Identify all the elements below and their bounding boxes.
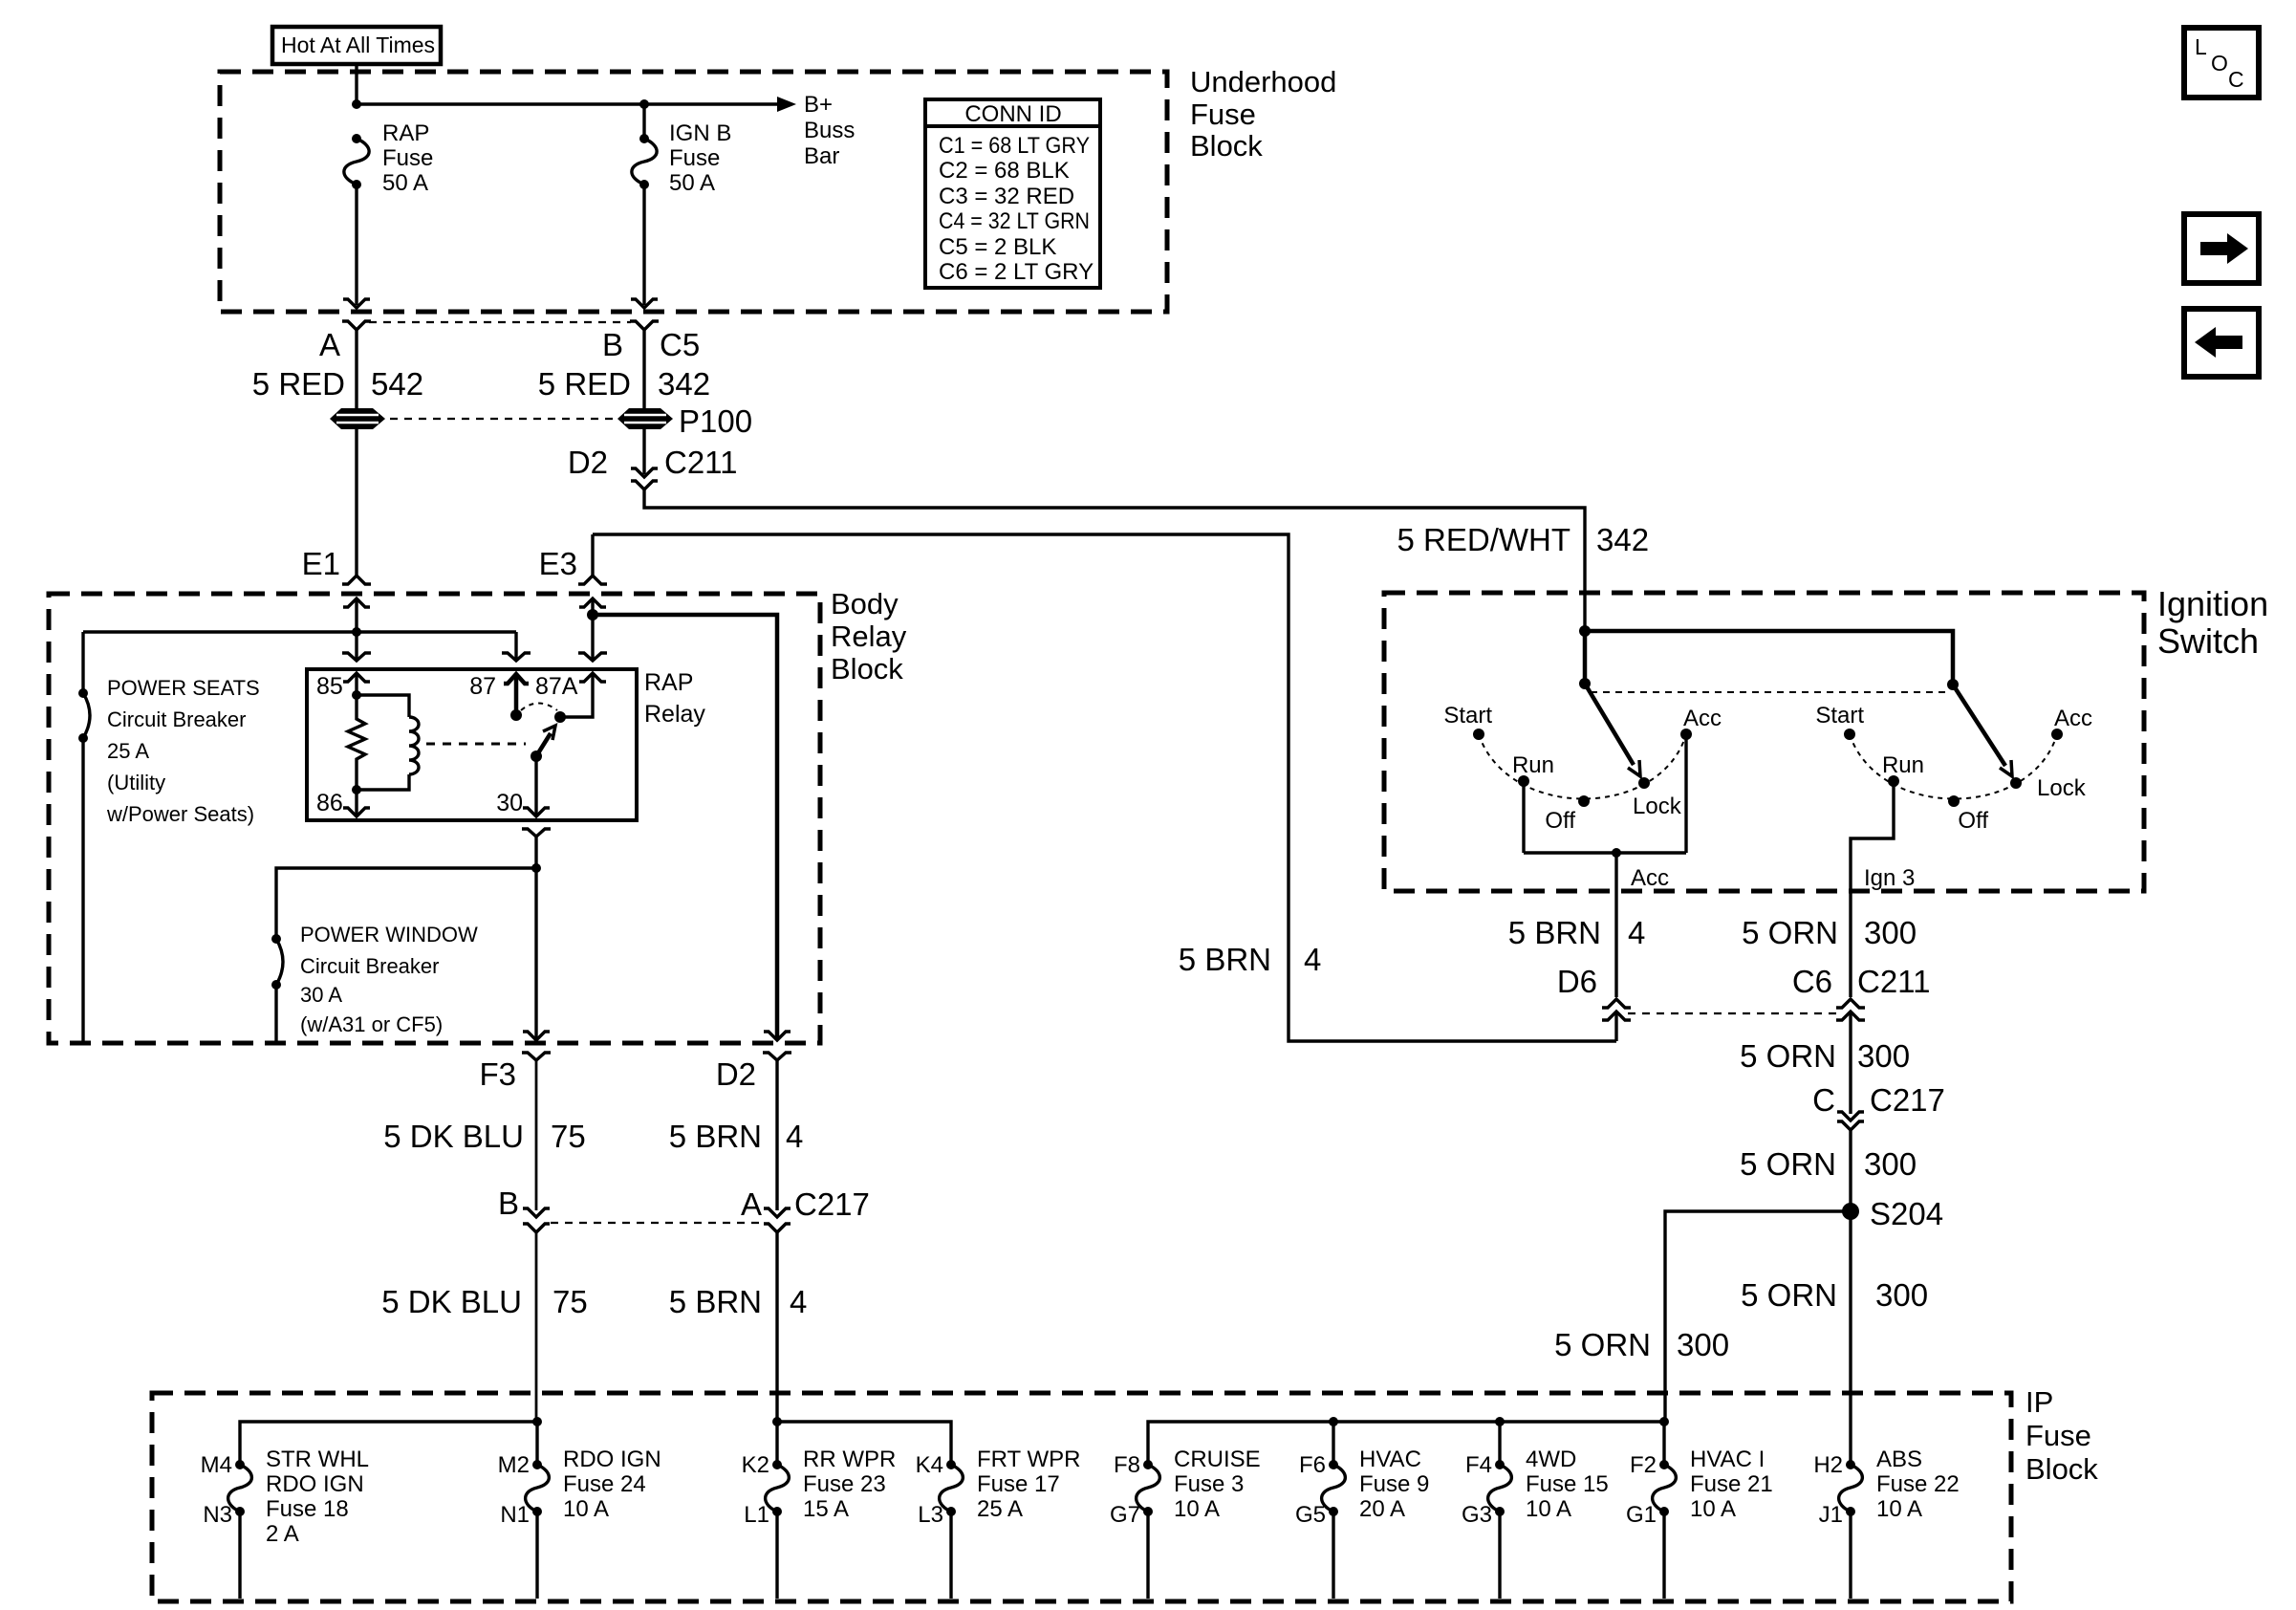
svg-text:5 BRN: 5 BRN (669, 1284, 762, 1319)
label 5 BRN 4 (acc) (1508, 915, 1646, 950)
svg-text:Fuse 17: Fuse 17 (977, 1471, 1060, 1497)
wire F2 feed (1662, 1422, 1665, 1465)
connector C217 C (arrow and fork) (1837, 1112, 1864, 1130)
wire fuse 23 out (775, 1512, 778, 1599)
wire pin 30 to F3 (534, 837, 537, 1039)
svg-text:C5: C5 (660, 327, 700, 362)
svg-text:C217: C217 (794, 1186, 870, 1222)
svg-text:POWER WINDOW: POWER WINDOW (300, 923, 478, 946)
svg-text:F8: F8 (1114, 1452, 1140, 1478)
wire A to grommet (355, 330, 357, 409)
svg-text:FRT WPR: FRT WPR (977, 1447, 1080, 1472)
wire power window breaker out (274, 985, 277, 1041)
svg-text:Lock: Lock (2037, 775, 2087, 801)
svg-text:50 A: 50 A (669, 170, 715, 196)
svg-text:S204: S204 (1870, 1196, 1943, 1231)
wire acc output bar (1524, 851, 1686, 854)
svg-text:CONN ID: CONN ID (964, 101, 1061, 127)
label box Hot At All Times (272, 27, 441, 64)
svg-text:10 A: 10 A (1526, 1496, 1571, 1522)
breaker POWER WINDOW 30 A (271, 934, 283, 990)
label 5 ORN 300 (below c211) (1740, 1038, 1910, 1074)
svg-text:F4: F4 (1465, 1452, 1492, 1478)
svg-text:50 A: 50 A (382, 170, 428, 196)
wire fuse 15 out (1498, 1512, 1501, 1599)
svg-text:5 RED/WHT: 5 RED/WHT (1397, 522, 1571, 557)
svg-text:C211: C211 (1857, 964, 1930, 999)
wire B grommet to C211 (642, 429, 645, 474)
connector fork at relay pin 87 (502, 653, 531, 661)
svg-text:Fuse 22: Fuse 22 (1876, 1471, 1960, 1497)
wire ip bus left (240, 1422, 537, 1465)
fuse CRUISE Fuse 3 10 A (1110, 1447, 1261, 1528)
pin 30 arrow (523, 756, 550, 816)
node bus F4 (1495, 1417, 1505, 1426)
node Acc right (2051, 729, 2063, 740)
connector C6 (double fork) (1836, 999, 1865, 1020)
svg-text:4: 4 (1628, 915, 1645, 950)
svg-text:Hot At All Times: Hot At All Times (281, 33, 435, 57)
label POWER WINDOW Circuit Breaker (300, 923, 478, 1036)
arrow F3 exit (523, 1032, 550, 1040)
connector fork below pin 30 (522, 829, 551, 837)
node bus M2 (532, 1417, 542, 1426)
node relay common (531, 751, 542, 762)
wire fuse 17 out (949, 1512, 952, 1599)
svg-text:F2: F2 (1630, 1452, 1657, 1478)
wire F4 feed (1498, 1422, 1501, 1465)
svg-text:G7: G7 (1110, 1502, 1140, 1528)
svg-text:87: 87 (469, 673, 496, 700)
wire E3 drop (591, 534, 594, 577)
node Lock right (2010, 777, 2022, 789)
pin 85 arrow (343, 673, 370, 695)
node left pivot (1579, 678, 1591, 689)
arrow E3 entry (579, 598, 606, 615)
svg-text:K4: K4 (916, 1452, 943, 1478)
svg-text:Ignition: Ignition (2157, 584, 2268, 623)
svg-text:CRUISE: CRUISE (1174, 1447, 1261, 1472)
fuse 4WD Fuse 15 10 A (1462, 1447, 1609, 1528)
label RAP Relay (644, 669, 705, 728)
pin 87A arrow (579, 673, 606, 682)
svg-text:POWER SEATS: POWER SEATS (107, 676, 260, 700)
svg-text:75: 75 (551, 1119, 586, 1154)
fuse RR WPR Fuse 23 15 A (742, 1447, 897, 1528)
wire F3 to C217 (535, 1060, 538, 1210)
connector F3 (fork) (522, 1053, 551, 1060)
label 5 BRN 4 (rap relay feed) (1179, 942, 1322, 977)
svg-text:C2 = 68 BLK: C2 = 68 BLK (939, 158, 1070, 184)
wire ignition crossbar (1585, 631, 1953, 685)
svg-text:Start: Start (1443, 703, 1492, 729)
svg-text:HVAC I: HVAC I (1690, 1447, 1765, 1472)
label 5 RED 542 (252, 366, 423, 402)
svg-text:300: 300 (1875, 1277, 1928, 1313)
svg-text:RR WPR: RR WPR (803, 1447, 896, 1472)
wire Acc left down (1684, 734, 1687, 853)
svg-text:Fuse: Fuse (1190, 98, 1256, 131)
wire C217 to S204 (1849, 1130, 1852, 1211)
label 5 DK BLU 75 (383, 1119, 585, 1154)
arrow D2 exit (764, 1032, 791, 1040)
svg-text:Fuse 15: Fuse 15 (1526, 1471, 1609, 1497)
wire IGN B fuse output (642, 185, 645, 305)
svg-text:342: 342 (658, 366, 710, 402)
node power window junction (531, 863, 541, 873)
svg-text:M2: M2 (498, 1452, 530, 1478)
svg-text:Fuse 23: Fuse 23 (803, 1471, 886, 1497)
svg-text:5 RED: 5 RED (252, 366, 345, 402)
wire C211 to ignition switch (644, 490, 1585, 631)
node Start left (1473, 729, 1484, 740)
svg-text:C3 = 32 RED: C3 = 32 RED (939, 184, 1074, 209)
wire left pole feed (1583, 631, 1588, 684)
wire D2 to C217 (775, 1060, 778, 1210)
fuse FRT WPR Fuse 17 25 A (916, 1447, 1081, 1528)
svg-text:A: A (741, 1186, 762, 1222)
label 5 ORN 300 (to abs) (1741, 1277, 1928, 1313)
svg-text:Relay: Relay (831, 620, 907, 653)
svg-text:A: A (319, 327, 340, 362)
node relay coil top (352, 690, 361, 700)
svg-text:ABS: ABS (1876, 1447, 1922, 1472)
svg-text:IGN B: IGN B (669, 120, 731, 146)
svg-text:5 ORN: 5 ORN (1741, 1277, 1837, 1313)
wire K2 feed (775, 1422, 778, 1465)
wire power window bus (276, 868, 536, 939)
svg-text:D2: D2 (568, 445, 608, 480)
svg-text:Block: Block (2025, 1452, 2098, 1486)
svg-text:P100: P100 (679, 403, 752, 439)
svg-text:300: 300 (1857, 1038, 1910, 1074)
svg-text:75: 75 (552, 1284, 588, 1319)
svg-text:5 ORN: 5 ORN (1740, 1146, 1836, 1182)
svg-text:C6: C6 (1792, 964, 1832, 999)
svg-text:D6: D6 (1557, 964, 1597, 999)
svg-text:5 ORN: 5 ORN (1742, 915, 1838, 950)
svg-text:5 ORN: 5 ORN (1554, 1327, 1651, 1362)
svg-text:J1: J1 (1819, 1502, 1843, 1528)
svg-text:5 DK BLU: 5 DK BLU (383, 1119, 524, 1154)
svg-text:RAP: RAP (382, 120, 429, 146)
svg-text:Run: Run (1512, 752, 1554, 778)
wire fuse 24 out (535, 1512, 538, 1599)
svg-text:5 BRN: 5 BRN (1179, 942, 1271, 977)
dashed connector link A-B (369, 321, 631, 323)
connector A (fork) (342, 321, 371, 330)
label IP Fuse Block (2025, 1385, 2098, 1486)
node Off right (1948, 795, 1960, 807)
svg-text:Body: Body (831, 587, 899, 620)
node ignition feed junction (1579, 625, 1591, 637)
fuse RAP 50 A (344, 120, 433, 196)
svg-text:85: 85 (316, 673, 343, 700)
svg-text:25 A: 25 A (977, 1496, 1023, 1522)
table CONN ID (925, 99, 1100, 288)
svg-text:O: O (2211, 51, 2228, 76)
wire M2 feed (535, 1422, 538, 1465)
svg-text:Off: Off (1545, 808, 1575, 834)
wire A grommet to E1 (355, 429, 357, 577)
node contact 87A (554, 711, 566, 723)
dashed gang link (1591, 691, 1947, 693)
svg-text:Fuse 3: Fuse 3 (1174, 1471, 1244, 1497)
node splice S204 (1842, 1203, 1859, 1220)
fuse RDO IGN Fuse 24 10 A (498, 1447, 661, 1528)
svg-text:M4: M4 (201, 1452, 232, 1478)
label 5 ORN 300 (above s204) (1740, 1146, 1917, 1182)
svg-text:300: 300 (1677, 1327, 1729, 1362)
svg-text:5 BRN: 5 BRN (669, 1119, 762, 1154)
svg-text:87A: 87A (535, 673, 578, 700)
node bus F6 (1329, 1417, 1338, 1426)
dashed coil actuator link (426, 743, 526, 746)
wire fuse 22 out (1849, 1512, 1852, 1599)
node Start right (1844, 729, 1855, 740)
icon right arrow box (2184, 214, 2259, 283)
svg-text:Underhood: Underhood (1190, 65, 1336, 98)
svg-text:E1: E1 (302, 546, 340, 581)
svg-text:F3: F3 (479, 1056, 516, 1092)
svg-text:25 A: 25 A (107, 739, 149, 763)
dashed throw arc 87 to 87A (521, 704, 557, 711)
svg-text:N3: N3 (203, 1502, 232, 1528)
wire RAP fuse output (355, 185, 357, 305)
Ignition Switch dashed box (1384, 593, 2144, 891)
svg-text:C6 = 2 LT GRY: C6 = 2 LT GRY (939, 259, 1094, 285)
svg-text:IP: IP (2025, 1385, 2053, 1419)
svg-text:Fuse: Fuse (2025, 1419, 2091, 1452)
node Run left (1518, 775, 1529, 787)
grommet P100 right (617, 408, 673, 429)
wire B+ bus bar feed (357, 102, 784, 105)
svg-text:Buss: Buss (804, 118, 855, 143)
wire S204 to ABS fuse (1849, 1211, 1852, 1465)
connector B (fork) (630, 321, 659, 330)
label POWER SEATS Circuit Breaker (106, 676, 260, 826)
wire fuse 9 out (1332, 1512, 1334, 1599)
dashed grommet link (390, 418, 614, 420)
svg-text:Relay: Relay (644, 701, 705, 728)
connector fork at relay pin 85 (342, 653, 371, 661)
node right pivot (1947, 679, 1959, 690)
svg-text:F6: F6 (1299, 1452, 1326, 1478)
svg-text:10 A: 10 A (1876, 1496, 1922, 1522)
arrow RAP wire at block edge (343, 299, 370, 308)
svg-text:G1: G1 (1626, 1502, 1657, 1528)
wire fuse 18 out (238, 1512, 241, 1599)
svg-text:STR WHL: STR WHL (266, 1447, 369, 1472)
wire B to grommet (642, 330, 645, 409)
label 5 RED/WHT 342 (1397, 522, 1650, 557)
wire 87 drop (514, 632, 517, 661)
wire power seats breaker out (81, 738, 84, 1041)
wire E3 feed from ignition acc (593, 534, 1616, 1041)
fuse IGN B 50 A (632, 104, 731, 196)
wire 87A to pin (560, 675, 593, 717)
svg-text:5 BRN: 5 BRN (1508, 915, 1601, 950)
breaker POWER SEATS 25 A (78, 688, 90, 743)
svg-text:300: 300 (1864, 915, 1917, 950)
node acc output (1612, 848, 1621, 858)
svg-text:(w/A31 or CF5): (w/A31 or CF5) (300, 1012, 443, 1036)
label 5 BRN 4 (lower) (669, 1284, 808, 1319)
svg-text:Run: Run (1882, 752, 1924, 778)
label 5 ORN 300 (branch) (1554, 1327, 1729, 1362)
wire F6 feed (1332, 1422, 1334, 1465)
arrow IGN B wire at block edge (631, 299, 658, 308)
node contact 87 (510, 709, 522, 721)
relay box RAP Relay (307, 669, 637, 820)
svg-text:G3: G3 (1462, 1502, 1492, 1528)
node junction IGN B feed (639, 99, 649, 109)
svg-text:4: 4 (1304, 942, 1321, 977)
switch arm right (1953, 685, 2012, 776)
svg-text:H2: H2 (1813, 1452, 1843, 1478)
connector D2 (fork) (763, 1053, 791, 1060)
svg-text:w/Power Seats): w/Power Seats) (106, 802, 254, 826)
svg-text:5 ORN: 5 ORN (1740, 1038, 1836, 1074)
svg-text:Circuit Breaker: Circuit Breaker (107, 707, 246, 731)
svg-text:Block: Block (831, 652, 903, 685)
svg-text:Circuit Breaker: Circuit Breaker (300, 954, 439, 978)
svg-text:2 A: 2 A (266, 1521, 299, 1547)
svg-text:C4 = 32 LT GRN: C4 = 32 LT GRN (939, 208, 1090, 234)
node Lock left (1638, 777, 1650, 789)
svg-text:Ign 3: Ign 3 (1864, 865, 1915, 891)
wire B to ip fuse block (535, 1232, 538, 1422)
wire Run right jog (1851, 781, 1894, 997)
label Body Relay Block (831, 587, 907, 685)
svg-text:342: 342 (1596, 522, 1649, 557)
svg-text:4: 4 (790, 1284, 807, 1319)
svg-text:Block: Block (1190, 129, 1263, 163)
svg-text:D2: D2 (716, 1056, 756, 1092)
icon LOC box (2184, 28, 2259, 98)
wire D6 to rap feed corner (1614, 1012, 1617, 1041)
resistor relay (348, 695, 365, 790)
Underhood Fuse Block dashed box (220, 72, 1167, 312)
svg-text:Switch: Switch (2157, 621, 2259, 661)
fuse STR WHL RDO IGN Fuse 18 2 A (201, 1447, 369, 1547)
dashed detent arc left (1479, 734, 1686, 799)
svg-text:Acc: Acc (1631, 865, 1669, 891)
connector C211 D2 (arrow and fork) (631, 468, 658, 490)
svg-text:C1 = 68 LT GRY: C1 = 68 LT GRY (939, 133, 1090, 159)
node Off left (1578, 795, 1590, 807)
svg-text:L3: L3 (918, 1502, 943, 1528)
grommet P100 left (330, 408, 385, 429)
pin 86 arrow (343, 790, 370, 816)
svg-text:C: C (2228, 67, 2244, 92)
svg-text:Acc: Acc (1683, 706, 1722, 731)
svg-text:L: L (2195, 34, 2207, 59)
svg-text:10 A: 10 A (1174, 1496, 1220, 1522)
svg-text:G5: G5 (1295, 1502, 1326, 1528)
svg-text:Lock: Lock (1633, 794, 1682, 819)
svg-text:(Utility: (Utility (107, 771, 165, 794)
wire A to ip fuse block (775, 1232, 778, 1422)
wire S204 branch left (1665, 1211, 1851, 1422)
dashed detent arc right (1850, 734, 2057, 799)
svg-text:4: 4 (786, 1119, 803, 1154)
svg-text:Fuse 18: Fuse 18 (266, 1496, 349, 1522)
node relay coil bottom (352, 785, 361, 794)
svg-text:Fuse: Fuse (669, 145, 720, 171)
node Run right (1888, 775, 1899, 787)
svg-text:542: 542 (371, 366, 423, 402)
svg-text:5 RED: 5 RED (538, 366, 631, 402)
coil relay (357, 695, 419, 790)
svg-text:RDO IGN: RDO IGN (266, 1471, 364, 1497)
svg-text:Off: Off (1958, 808, 1988, 834)
svg-text:RDO IGN: RDO IGN (563, 1447, 661, 1472)
label 5 ORN 300 (ign3) (1742, 915, 1917, 950)
switch arm relay (536, 726, 555, 756)
svg-text:RAP: RAP (644, 669, 693, 696)
svg-text:C: C (1812, 1082, 1835, 1118)
connector C217 A (arrow and fork) (764, 1208, 791, 1232)
wire E3 to D2 (593, 615, 777, 1039)
svg-text:C5 = 2 BLK: C5 = 2 BLK (939, 234, 1056, 260)
svg-text:Fuse 9: Fuse 9 (1359, 1471, 1429, 1497)
wire ip bus right (1148, 1422, 1664, 1465)
svg-text:Start: Start (1815, 703, 1864, 729)
svg-text:Fuse 24: Fuse 24 (563, 1471, 646, 1497)
switch arm left (1585, 684, 1640, 776)
wire acc output down (1614, 853, 1617, 997)
arrow E1 entry (343, 598, 370, 632)
svg-text:E3: E3 (539, 546, 577, 581)
svg-text:10 A: 10 A (1690, 1496, 1736, 1522)
Body Relay Block dashed box (49, 594, 820, 1043)
svg-text:5 DK BLU: 5 DK BLU (381, 1284, 522, 1319)
svg-text:10 A: 10 A (563, 1496, 609, 1522)
label Ignition Switch (2157, 584, 2268, 661)
icon left arrow box (2184, 309, 2259, 377)
svg-text:B: B (498, 1186, 519, 1221)
node bus K2 (772, 1417, 782, 1426)
connector fork above 87A (578, 653, 607, 661)
svg-text:300: 300 (1864, 1146, 1917, 1182)
svg-text:Fuse 21: Fuse 21 (1690, 1471, 1773, 1497)
svg-text:30 A: 30 A (300, 983, 342, 1007)
fuse ABS Fuse 22 10 A (1813, 1447, 1959, 1528)
connector D6 (double fork) (1602, 999, 1631, 1020)
label 5 RED 342 (538, 366, 710, 402)
wire C6 to C217 (1849, 1012, 1852, 1114)
wire from Hot At All Times into fuse block (355, 64, 357, 104)
svg-text:4WD: 4WD (1526, 1447, 1576, 1472)
svg-text:HVAC: HVAC (1359, 1447, 1421, 1472)
label 5 DK BLU 75 (lower) (381, 1284, 587, 1319)
svg-text:15 A: 15 A (803, 1496, 849, 1522)
svg-text:30: 30 (496, 790, 523, 816)
wire ip bus K (777, 1422, 951, 1465)
svg-text:Acc: Acc (2054, 706, 2092, 731)
node bus F2 (1659, 1417, 1669, 1426)
node E1 junction (352, 627, 361, 637)
svg-text:C217: C217 (1870, 1082, 1945, 1118)
wire fuse 21 out (1662, 1512, 1665, 1599)
IP Fuse Block dashed box (152, 1393, 2011, 1601)
pin 87 arrow bold (504, 674, 529, 715)
arrow B+ (777, 97, 796, 112)
svg-text:Bar: Bar (804, 143, 839, 169)
node E3 junction (587, 609, 598, 620)
svg-text:B+: B+ (804, 92, 833, 118)
